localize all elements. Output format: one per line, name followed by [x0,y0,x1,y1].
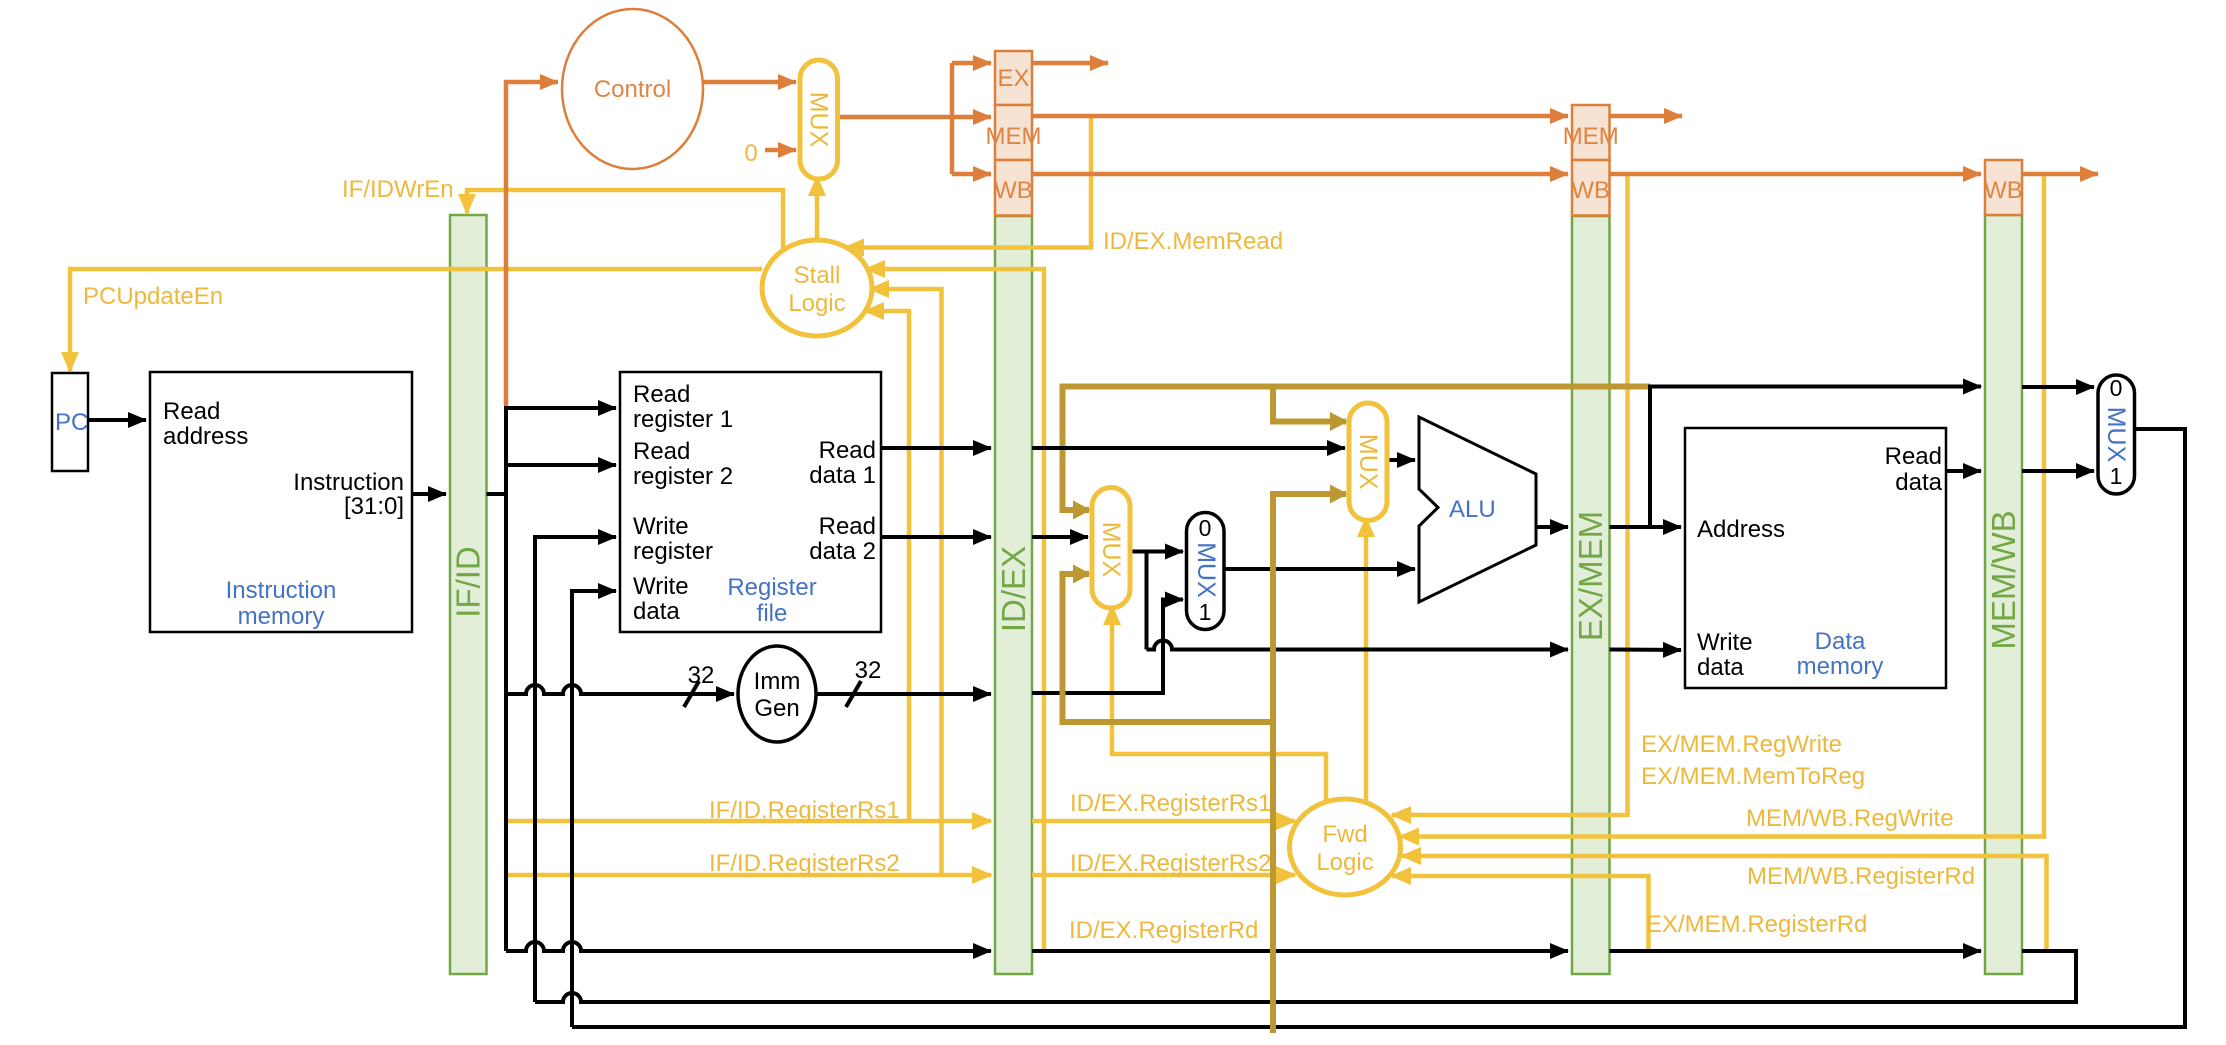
svg-text:Write: Write [633,513,689,540]
wire write data to EX/MEM with hop [1147,641,1569,650]
svg-text:Imm: Imm [754,668,801,695]
svg-text:Read: Read [163,398,220,425]
wire Instruction[31:0] to IF/ID [412,492,446,496]
wire MEM control rail ID/EX to EX/MEM [1033,114,1569,119]
svg-text:Logic: Logic [788,290,845,317]
wire ForwardA select from Fwd Logic to MUX A [1364,518,1369,803]
svg-text:Instruction: Instruction [226,577,337,604]
svg-text:MEM: MEM [986,123,1042,150]
svg-text:MUX: MUX [1192,542,1220,598]
slash 32 on Imm Gen output [846,681,861,707]
wire PCUpdateEn from Stall Logic to PC [70,269,762,371]
control MUX (flush mux) [800,60,838,179]
svg-text:IF/ID.RegisterRs2: IF/ID.RegisterRs2 [709,850,900,877]
svg-text:32: 32 [855,657,882,684]
svg-text:Read: Read [819,513,876,540]
writeback MUX [2098,375,2135,494]
svg-text:ID/EX.MemRead: ID/EX.MemRead [1103,228,1283,255]
svg-text:32: 32 [688,662,715,689]
wire RegisterRd rail EX/MEM to MEM/WB [1610,949,1982,953]
svg-text:0: 0 [2110,375,2123,401]
wire ALUsrc mux to ALU [1224,567,1415,571]
svg-text:Gen: Gen [754,695,799,722]
svg-text:memory: memory [238,603,325,630]
svg-text:Register: Register [727,574,816,601]
wire ID/EX.RegisterRs2 to Fwd Logic [1032,873,1295,878]
svg-text:MEM/WB: MEM/WB [1985,510,2022,649]
svg-text:Address: Address [1697,516,1785,543]
wire RegisterRd rail ID/EX to EX/MEM [1032,949,1568,953]
wire write data feedback vertical [572,591,616,1027]
svg-text:file: file [757,600,788,627]
wire Read data to MEM/WB [1946,469,1981,473]
wire MEM/WB.RegWrite to Fwd Logic [1400,174,2044,837]
svg-text:ID/EX.RegisterRs2: ID/EX.RegisterRs2 [1070,850,1271,877]
Fwd Logic ellipse [1290,799,1401,895]
wire IF/ID.RegisterRs2 [506,873,991,878]
svg-text:data: data [633,598,680,625]
wire EX/MEM.RegisterRd to Fwd Logic [1392,876,1649,949]
MEM/WB control box WB [1984,160,2023,215]
pipeline register ID/EX (green bar) [995,216,1032,974]
Imm Gen ellipse [738,646,816,742]
svg-text:WB: WB [994,177,1033,204]
wire EX/MEM forward branch to MUX A [1273,387,1346,422]
ID/EX control boxes EX MEM WB [986,51,1042,216]
forward MUX A [1349,403,1387,521]
svg-text:WB: WB [1984,177,2023,204]
wire WB control rail EX/MEM to MEM/WB [1610,172,1982,177]
svg-text:0: 0 [1199,515,1212,541]
pipeline register IF/ID (green bar) [450,215,487,974]
data memory box [1685,428,1946,688]
pipeline register MEM/WB (green bar) [1985,215,2022,974]
svg-text:Read: Read [633,381,690,408]
forward MUX B [1092,488,1130,609]
PC register box [52,373,88,471]
wire EX/MEM.RegWrite+MemToReg to Fwd Logic [1392,174,1628,815]
wire Read data 1 to MUX A [1032,446,1345,450]
wire Control to MUX [703,80,796,85]
wire instruction bus vertical [504,406,508,951]
wire instruction bus out of IF/ID [487,492,507,496]
svg-text:ID/EX.RegisterRd: ID/EX.RegisterRd [1069,917,1258,944]
wire MEM/WB forward branch to MUX B [1063,574,1274,722]
wire IF/ID.RegisterRs2 tap to Stall Logic [870,289,942,875]
svg-text:Write: Write [1697,629,1753,656]
wire IF/ID.RegisterRs1 [506,819,991,824]
wire ID/EX.MemRead tap to Stall Logic [845,116,1091,248]
svg-text:Data: Data [1815,628,1866,655]
register file box [620,372,881,632]
wire ID/EX.RegisterRs1 to Fwd Logic [1032,819,1295,824]
svg-text:Control: Control [594,76,671,103]
svg-text:Read: Read [819,437,876,464]
svg-text:MEM/WB.RegisterRd: MEM/WB.RegisterRd [1747,863,1975,890]
instruction memory box [150,372,412,632]
EX/MEM control boxes MEM WB [1563,105,1619,216]
svg-text:register: register [633,538,713,565]
wire Read data 1 to ID/EX [881,446,991,450]
svg-text:[31:0]: [31:0] [344,493,404,520]
wire Imm Gen to ID/EX [816,692,991,696]
wire immediate to ALUsrc mux [1032,600,1183,694]
svg-text:ID/EX: ID/EX [995,546,1032,632]
svg-text:1: 1 [2110,463,2123,489]
svg-text:address: address [163,423,248,450]
wire MEM/WB.RegisterRd to Fwd Logic [1402,856,2047,949]
svg-text:Stall: Stall [794,262,841,289]
svg-text:MEM/WB.RegWrite: MEM/WB.RegWrite [1746,805,1954,832]
wire Stall Logic to control MUX [815,177,820,240]
svg-text:WB: WB [1571,177,1610,204]
svg-text:MUX: MUX [2102,407,2130,463]
wire WB control out of MEM/WB [2022,172,2098,177]
svg-text:data 2: data 2 [809,538,876,565]
wire ForwardB select from Fwd Logic to MUX B [1112,606,1326,806]
wire to Read register 2 [506,463,616,467]
svg-text:Logic: Logic [1316,849,1373,876]
svg-text:EX/MEM: EX/MEM [1572,511,1609,641]
wire write register feedback vertical [535,537,616,1002]
wire writeback mux out feedback to Write data [572,429,2185,1027]
wire MEM/WB forward (writeback value) [1273,494,1346,1033]
Control ellipse [562,9,703,169]
svg-text:register 2: register 2 [633,463,733,490]
wire write data EX/MEM to data memory [1610,648,1682,653]
wire MEM control out of EX/MEM [1610,114,1683,119]
svg-text:EX/MEM.RegWrite: EX/MEM.RegWrite [1641,731,1842,758]
svg-text:PCUpdateEn: PCUpdateEn [83,283,223,310]
svg-text:Fwd: Fwd [1322,821,1367,848]
wire IF/ID.RegisterRs1 tap to Stall Logic [865,311,909,821]
wire fan vertical [950,63,955,174]
slash 32 on Imm Gen input [684,681,699,707]
wire to Read register 1 [506,406,616,410]
svg-text:MUX: MUX [1097,522,1125,578]
wire IF/IDWrEn from Stall Logic to IF/ID [467,190,783,252]
wire Read data to final mux input 1 [2022,469,2094,473]
svg-text:IF/ID: IF/ID [450,546,487,618]
wire to Imm Gen with hops [506,685,734,694]
wire ALU result to EX/MEM [1536,525,1568,529]
wire RegisterRd to ID/EX with hops [506,942,991,951]
svg-text:EX: EX [997,65,1029,92]
wire ID/EX.RegisterRd tap to Stall Logic [866,269,1044,951]
wire PC to instruction memory [88,418,146,422]
svg-text:MEM: MEM [1563,123,1619,150]
svg-text:IF/ID.RegisterRs1: IF/ID.RegisterRs1 [709,797,900,824]
wire MEM control into ID/EX [952,115,991,120]
svg-text:MUX: MUX [805,92,833,148]
wire ALU result to data memory Address [1610,525,1682,529]
svg-text:IF/IDWrEn: IF/IDWrEn [342,176,454,203]
svg-text:data: data [1895,469,1942,496]
wire MUX A to ALU [1387,458,1415,462]
wire MUX B out to ALUsrc mux [1130,550,1183,554]
svg-text:0: 0 [744,140,757,167]
wire ALU result bypass up and to MEM/WB [1650,387,1981,528]
wire EX control into ID/EX [952,61,991,66]
svg-text:PC: PC [55,409,88,436]
wire RegisterRd feedback to Write register [535,951,2076,1002]
svg-text:Read: Read [633,438,690,465]
wire Read data 2 to ID/EX [881,535,991,539]
wire MUX B out down to memory write data [1145,552,1149,650]
ALUsrc MUX [1187,513,1225,630]
svg-text:ALU: ALU [1449,496,1496,523]
wire 0 constant into MUX [765,148,796,153]
ALU [1419,417,1536,602]
pipeline register EX/MEM (green bar) [1572,216,1610,974]
svg-text:Write: Write [633,573,689,600]
wire WB control rail ID/EX to EX/MEM [1033,172,1569,177]
svg-text:EX/MEM.MemToReg: EX/MEM.MemToReg [1641,763,1865,790]
wire instruction tap to Control [506,82,558,406]
wire EX/MEM forward (ALU result) [1063,387,1651,511]
svg-text:ID/EX.RegisterRs1: ID/EX.RegisterRs1 [1070,790,1271,817]
wire Read data 2 to MUX B [1032,535,1088,539]
svg-text:1: 1 [1199,599,1212,625]
svg-text:EX/MEM.RegisterRd: EX/MEM.RegisterRd [1646,911,1867,938]
svg-text:register 1: register 1 [633,406,733,433]
svg-text:Instruction: Instruction [293,469,404,496]
svg-text:memory: memory [1797,653,1884,680]
wire MUX out to fan node [838,115,953,120]
svg-text:MUX: MUX [1354,434,1382,490]
svg-text:data: data [1697,654,1744,681]
wire WB control into ID/EX [952,172,991,177]
wire bypass to final mux input 0 [2022,385,2094,389]
Stall Logic ellipse [762,240,872,336]
wire EX control out of ID/EX [1033,61,1109,66]
svg-text:data 1: data 1 [809,462,876,489]
svg-text:Read: Read [1885,443,1942,470]
